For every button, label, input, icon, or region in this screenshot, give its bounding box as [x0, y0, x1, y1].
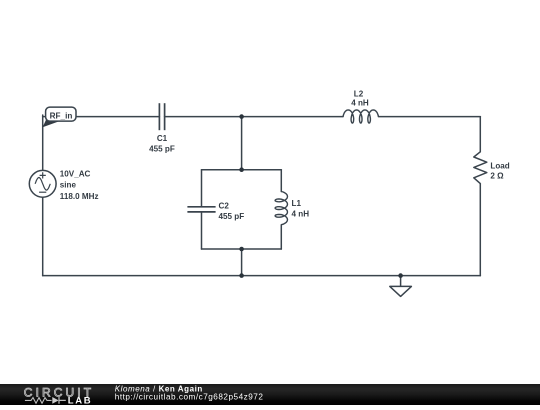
junction node: C1/tank top tee	[239, 114, 244, 119]
logo CIRCUIT outline text	[24, 386, 94, 400]
wire: bottom rail	[43, 275, 481, 277]
junction node: bottom rail tee	[239, 273, 244, 278]
wire: stub from tank bottom to bottom rail	[241, 249, 243, 276]
svg-text:RF_in: RF_in	[50, 111, 73, 120]
svg-text:2 Ω: 2 Ω	[490, 171, 504, 180]
voltage source V1	[29, 170, 56, 197]
label C2 value	[219, 201, 245, 221]
label L2 value	[351, 89, 369, 107]
svg-text:C1: C1	[157, 134, 168, 143]
wire: tank bottom edge	[202, 248, 282, 250]
wire: top rail right segment (L2 to right corner)	[379, 116, 481, 118]
wire: left rail (RF_in corner down to bottom rail)	[42, 115, 44, 276]
logo resistor squiggle	[25, 398, 52, 404]
junction node: tank top	[239, 167, 244, 172]
wire: right rail lower (Load to bottom corner)	[479, 184, 481, 276]
wire: tank left edge upper segment	[201, 170, 203, 207]
capacitor C1	[159, 103, 164, 130]
ground	[390, 276, 412, 297]
junction node: ground tee	[398, 273, 403, 278]
inductor L1	[275, 192, 287, 225]
svg-text:455 pF: 455 pF	[219, 212, 245, 221]
footer bar	[0, 384, 540, 405]
logo LAB text	[68, 395, 93, 406]
svg-text:Load: Load	[490, 161, 509, 170]
capacitor C2	[187, 207, 215, 212]
wire: right rail upper (corner to Load)	[479, 117, 481, 152]
label Load value	[490, 161, 509, 180]
svg-text:4 nH: 4 nH	[292, 210, 310, 219]
svg-text:L2: L2	[354, 89, 364, 98]
svg-text:LAB: LAB	[68, 395, 93, 405]
wire: tank right edge upper segment	[280, 170, 282, 192]
label C1 value	[149, 134, 175, 154]
svg-text:455 pF: 455 pF	[149, 144, 175, 153]
svg-text:http://circuitlab.com/c7g682p5: http://circuitlab.com/c7g682p54z972	[115, 393, 264, 402]
wire: tank top edge	[202, 169, 282, 171]
inductor L2	[343, 110, 379, 123]
svg-text:118.0 MHz: 118.0 MHz	[60, 192, 99, 201]
wire: tank left edge lower segment	[201, 212, 203, 249]
svg-text:C2: C2	[219, 201, 230, 210]
resistor Load	[474, 152, 487, 184]
svg-text:4 nH: 4 nH	[351, 99, 369, 108]
footer author line	[115, 385, 264, 402]
label L1 value	[292, 199, 310, 219]
wire: top rail middle segment (C1 to L2)	[165, 116, 343, 118]
wire: top rail left segment (RF_in to C1)	[43, 116, 160, 118]
svg-text:L1: L1	[292, 199, 302, 208]
junction node: tank bottom	[239, 247, 244, 252]
net flag RF_in	[43, 107, 76, 127]
logo diode	[52, 397, 66, 404]
wire: tank right edge lower segment	[280, 225, 282, 249]
label V1 value	[60, 169, 99, 200]
wire: stub from top junction down to tank top	[241, 117, 243, 170]
svg-text:sine: sine	[60, 181, 77, 190]
svg-text:10V_AC: 10V_AC	[60, 169, 91, 178]
